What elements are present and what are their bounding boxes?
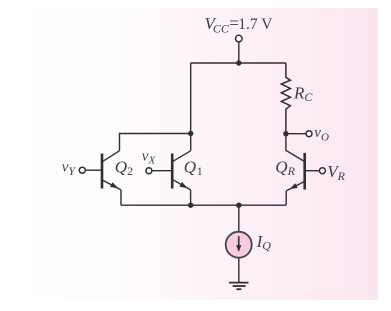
junction dot at VCC tap (236, 60, 241, 65)
wire left vertical to Q1 collector (190, 63, 192, 151)
terminal circle VR (319, 168, 325, 174)
transistor Q2 emitter diagonal (103, 180, 121, 190)
junction dot at Q1 emitter on rail (188, 203, 193, 208)
transistor Q1 emitter diagonal (173, 180, 191, 190)
junction dot at collector/vO node (283, 131, 288, 136)
transistor QR emitter diagonal (286, 182, 304, 191)
wire Q2 emitter down (120, 190, 122, 205)
wire QR emitter down (285, 191, 287, 205)
junction dot at current source tap (236, 203, 241, 208)
current source IQ circle (226, 232, 252, 258)
transistor Q2 collector diagonal (103, 151, 120, 162)
wire QR collector (286, 134, 304, 161)
terminal circle vY (79, 167, 85, 173)
wire bottom emitter rail (121, 204, 286, 206)
transistor Q1 base bar (171, 154, 174, 189)
resistor RC (281, 63, 290, 134)
wire top rail (191, 62, 286, 64)
wire QR base lead (306, 170, 320, 172)
transistor QR emitter arrowhead (289, 183, 297, 189)
wire VCC terminal to top rail (238, 42, 240, 63)
terminal circle vX (146, 168, 152, 174)
wire branch to Q2 collector (120, 134, 191, 151)
wire node to vO terminal (286, 133, 306, 135)
terminal circle vO (306, 131, 312, 137)
svg-text:V: V (261, 16, 273, 33)
wire rail to current source (238, 205, 240, 231)
transistor Q2 base bar (101, 154, 104, 189)
svg-text:1.7: 1.7 (238, 16, 258, 33)
wire Q1 emitter down (190, 190, 192, 205)
terminal circle VCC (236, 35, 243, 42)
current source arrow (236, 236, 241, 252)
transistor Q1 collector diagonal (173, 151, 191, 162)
wire current source to ground (238, 258, 240, 282)
wire Q2 base lead (86, 169, 101, 171)
transistor QR base bar (303, 153, 306, 190)
ground (229, 283, 249, 290)
transistor Q1 emitter arrowhead (179, 182, 188, 188)
wire Q1 base lead (153, 170, 172, 172)
transistor Q2 emitter arrowhead (110, 182, 119, 188)
junction dot at Q2 branch (188, 131, 193, 136)
